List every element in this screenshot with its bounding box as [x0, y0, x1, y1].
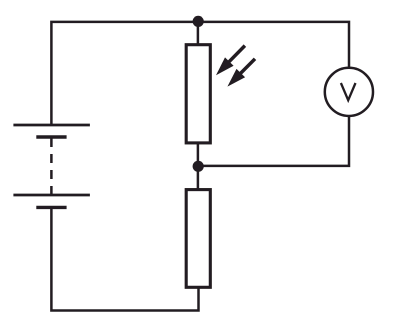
- battery B1 (two cells with dashed link): [13, 125, 90, 207]
- voltmeter V1 body: [325, 68, 373, 116]
- LDR light arrow 2: [227, 59, 255, 87]
- wire: LDR bottom lead down to node B: [197, 142, 200, 167]
- battery: cell 1 long plate: [13, 124, 90, 127]
- wire: voltmeter bottom lead down and across to node B: [198, 116, 350, 166]
- resistor R2 body (lower resistor rectangle): [186, 190, 210, 288]
- LDR light arrow 1: [216, 46, 245, 76]
- node A (top junction dot): [193, 16, 204, 27]
- voltmeter V1 label "V": [341, 83, 356, 100]
- wire: LDR top lead from node A: [197, 22, 200, 46]
- LDR R1 body (upper resistor rectangle): [186, 45, 210, 143]
- battery: cell 2 long plate: [13, 194, 90, 197]
- battery: dashed link between cells: [50, 138, 53, 195]
- battery: cell 1 short plate: [36, 135, 66, 138]
- wire: battery negative terminal down, along bottom, up to resistor R2 bottom: [51, 207, 198, 310]
- wire: resistor R2 top lead from node B: [197, 166, 200, 191]
- battery: cell 2 short plate: [36, 206, 66, 209]
- node B (middle junction dot): [193, 161, 204, 172]
- wire: top rail from battery positive up and across to voltmeter top lead: [51, 22, 349, 125]
